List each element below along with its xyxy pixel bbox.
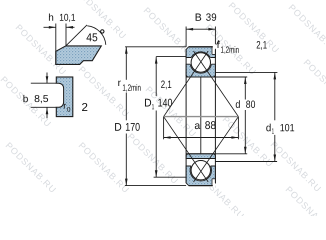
- svg-text:8,5: 8,5: [34, 94, 49, 105]
- svg-text:80: 80: [246, 99, 256, 111]
- svg-text:D: D: [144, 98, 152, 110]
- svg-text:45: 45: [86, 32, 98, 44]
- svg-text:b: b: [23, 94, 29, 105]
- outer ring (top section): [186, 47, 215, 58]
- svg-text:10,1: 10,1: [59, 13, 76, 24]
- contact lines (X): [194, 51, 239, 117]
- svg-text:2: 2: [81, 102, 87, 114]
- snap ring groove (bottom section, right side): [212, 179, 215, 187]
- svg-text:h: h: [48, 13, 54, 24]
- detail view: outer-ring locating slot cross-section: [56, 46, 102, 65]
- svg-text:1,2min: 1,2min: [220, 45, 239, 55]
- svg-text:39: 39: [206, 12, 217, 24]
- groove notch: [56, 83, 64, 107]
- dimension D1 140: [156, 56, 186, 58]
- svg-text:1,2min: 1,2min: [122, 83, 141, 93]
- 45 degree slot angle: [66, 25, 87, 46]
- axis line: [164, 116, 239, 118]
- snap ring groove (top section, right side): [212, 46, 215, 54]
- svg-text:88: 88: [205, 120, 216, 132]
- dimension h 10,1: [55, 24, 57, 65]
- dimension a 88: [163, 117, 165, 140]
- inner ring (bottom section): [186, 154, 215, 159]
- dimension B 39: [185, 27, 187, 47]
- dimension d1 101: [215, 71, 277, 73]
- svg-text:D: D: [114, 122, 122, 134]
- balls: [191, 53, 210, 72]
- dimension b 8,5: [31, 82, 56, 84]
- split inner ring centerline: [200, 77, 202, 154]
- svg-text:170: 170: [125, 122, 140, 134]
- svg-text:140: 140: [158, 98, 173, 110]
- svg-text:r: r: [63, 101, 66, 111]
- svg-text:d: d: [235, 99, 240, 111]
- svg-text:1: 1: [152, 102, 155, 111]
- outer ring (bottom section): [186, 166, 215, 186]
- svg-text:101: 101: [280, 122, 295, 134]
- label r 1,2min 2,1 (top right chamfer): [216, 40, 220, 45]
- dimension d 80: [215, 76, 247, 78]
- svg-text:2,1: 2,1: [161, 79, 172, 91]
- svg-text:0: 0: [67, 107, 71, 114]
- dimension D 170: [125, 46, 186, 48]
- svg-text:2,1: 2,1: [256, 40, 267, 52]
- inner ring (top section): [186, 64, 215, 77]
- detail view: snap ring groove cross-section: [56, 77, 73, 117]
- svg-text:B: B: [195, 12, 202, 24]
- svg-text:a: a: [194, 120, 200, 132]
- svg-text:1: 1: [272, 127, 275, 136]
